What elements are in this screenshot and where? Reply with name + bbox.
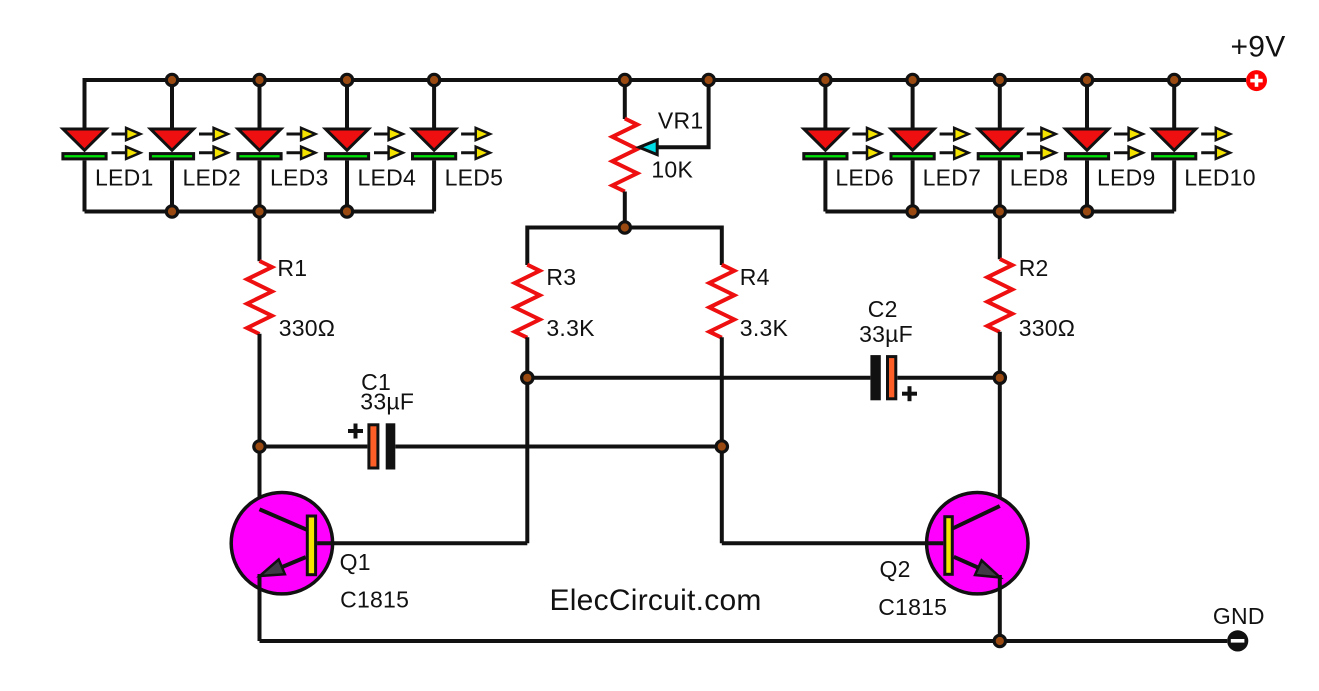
svg-text:+9V: +9V	[1231, 31, 1286, 64]
svg-text:R1: R1	[277, 255, 307, 281]
svg-text:LED10: LED10	[1184, 165, 1256, 191]
svg-text:LED7: LED7	[923, 165, 982, 191]
svg-text:R2: R2	[1019, 255, 1049, 281]
svg-text:3.3K: 3.3K	[546, 315, 595, 341]
svg-text:C1815: C1815	[878, 594, 947, 620]
svg-text:330Ω: 330Ω	[1019, 315, 1076, 341]
svg-text:33µF: 33µF	[360, 389, 414, 415]
svg-text:LED4: LED4	[358, 165, 417, 191]
svg-text:LED6: LED6	[835, 165, 894, 191]
svg-text:3.3K: 3.3K	[740, 315, 789, 341]
svg-text:ElecCircuit.com: ElecCircuit.com	[550, 584, 762, 617]
svg-text:VR1: VR1	[658, 108, 704, 134]
svg-text:C1815: C1815	[340, 586, 409, 612]
svg-text:10K: 10K	[651, 157, 693, 183]
svg-text:LED8: LED8	[1010, 165, 1069, 191]
svg-text:LED5: LED5	[445, 165, 504, 191]
svg-text:33µF: 33µF	[859, 321, 913, 347]
svg-text:GND: GND	[1213, 603, 1265, 629]
svg-text:LED9: LED9	[1097, 165, 1156, 191]
svg-text:R3: R3	[546, 264, 576, 290]
svg-text:LED2: LED2	[183, 165, 242, 191]
svg-text:Q1: Q1	[340, 549, 371, 575]
svg-text:C2: C2	[868, 296, 898, 322]
svg-text:LED3: LED3	[270, 165, 329, 191]
svg-text:330Ω: 330Ω	[279, 315, 336, 341]
svg-text:R4: R4	[740, 264, 770, 290]
svg-text:Q2: Q2	[880, 556, 911, 582]
svg-text:LED1: LED1	[95, 165, 154, 191]
